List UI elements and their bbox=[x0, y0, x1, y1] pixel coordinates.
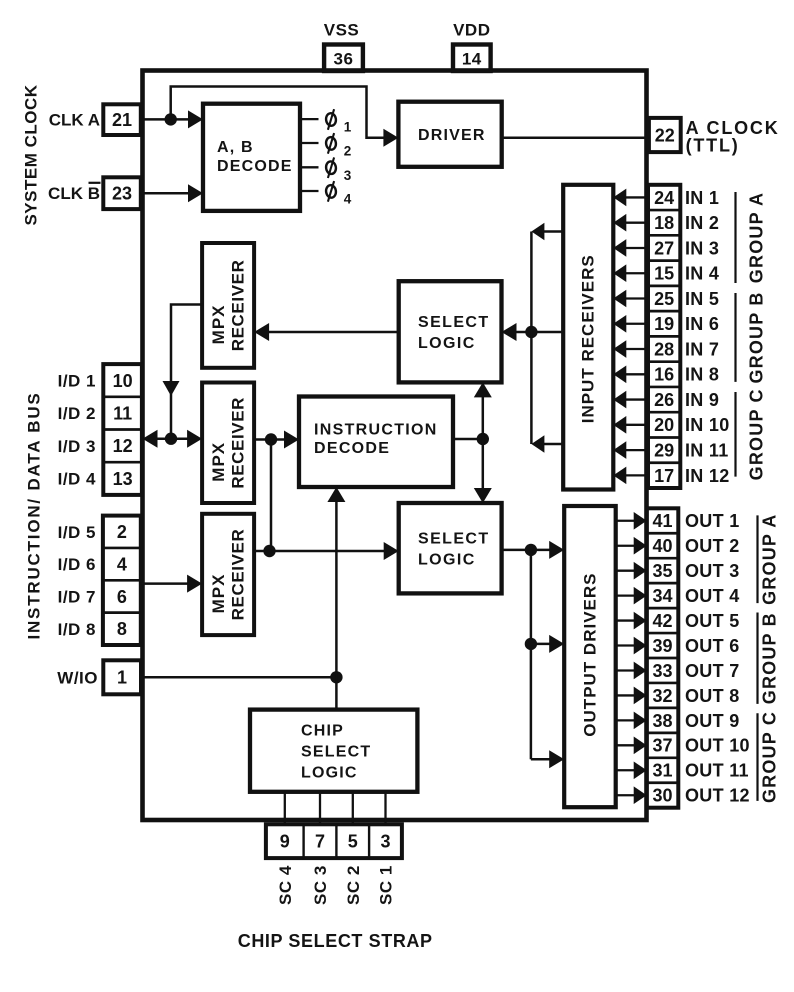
svg-text:I/D 1: I/D 1 bbox=[58, 372, 96, 391]
svg-text:12: 12 bbox=[113, 436, 133, 456]
svg-text:24: 24 bbox=[654, 188, 674, 208]
svg-text:MPX: MPX bbox=[209, 574, 228, 614]
svg-text:34: 34 bbox=[652, 586, 672, 606]
svg-text:25: 25 bbox=[654, 289, 674, 309]
svg-text:SC 2: SC 2 bbox=[344, 865, 363, 905]
svg-text:INPUT RECEIVERS: INPUT RECEIVERS bbox=[579, 254, 598, 423]
svg-text:32: 32 bbox=[652, 686, 672, 706]
svg-text:IN 7: IN 7 bbox=[685, 339, 719, 359]
svg-text:16: 16 bbox=[654, 365, 674, 385]
svg-text:I/D 4: I/D 4 bbox=[58, 470, 96, 489]
svg-text:OUT 5: OUT 5 bbox=[685, 611, 740, 631]
svg-text:I/D 3: I/D 3 bbox=[58, 437, 96, 456]
svg-text:11: 11 bbox=[113, 404, 132, 424]
svg-text:CLK A: CLK A bbox=[49, 110, 100, 129]
svg-text:IN 5: IN 5 bbox=[685, 289, 719, 309]
svg-text:IN 1: IN 1 bbox=[685, 188, 719, 208]
svg-text:IN 3: IN 3 bbox=[685, 238, 719, 258]
svg-text:36: 36 bbox=[334, 50, 354, 69]
svg-text:SELECT: SELECT bbox=[418, 530, 490, 547]
svg-text:1: 1 bbox=[117, 668, 127, 688]
svg-text:28: 28 bbox=[654, 339, 674, 359]
svg-text:40: 40 bbox=[652, 536, 672, 556]
svg-text:I/D 7: I/D 7 bbox=[58, 588, 96, 607]
svg-text:LOGIC: LOGIC bbox=[418, 551, 476, 568]
svg-text:26: 26 bbox=[654, 390, 674, 410]
svg-text:RECEIVER: RECEIVER bbox=[229, 529, 248, 621]
svg-text:37: 37 bbox=[652, 736, 672, 756]
svg-text:SC 4: SC 4 bbox=[276, 865, 295, 905]
svg-text:VDD: VDD bbox=[453, 21, 490, 40]
svg-text:IN 9: IN 9 bbox=[685, 390, 719, 410]
svg-text:GROUP A: GROUP A bbox=[747, 192, 767, 283]
svg-text:10: 10 bbox=[113, 371, 133, 391]
svg-text:38: 38 bbox=[652, 711, 672, 731]
svg-text:4: 4 bbox=[344, 192, 352, 207]
svg-text:29: 29 bbox=[654, 441, 674, 461]
svg-text:I/D 8: I/D 8 bbox=[58, 620, 96, 639]
svg-text:14: 14 bbox=[462, 50, 482, 69]
svg-text:5: 5 bbox=[348, 832, 358, 852]
svg-text:OUT 11: OUT 11 bbox=[685, 761, 749, 781]
svg-text:GROUP C: GROUP C bbox=[760, 711, 780, 803]
svg-text:GROUP B: GROUP B bbox=[760, 612, 780, 704]
svg-text:(TTL): (TTL) bbox=[686, 135, 740, 155]
svg-text:35: 35 bbox=[652, 561, 672, 581]
svg-text:SC 1: SC 1 bbox=[377, 865, 396, 905]
svg-text:LOGIC: LOGIC bbox=[301, 764, 358, 781]
svg-text:IN 4: IN 4 bbox=[685, 264, 719, 284]
svg-text:OUT 7: OUT 7 bbox=[685, 661, 740, 681]
svg-text:OUT 4: OUT 4 bbox=[685, 586, 740, 606]
svg-text:OUT 6: OUT 6 bbox=[685, 636, 740, 656]
svg-text:OUT 2: OUT 2 bbox=[685, 536, 740, 556]
svg-text:9: 9 bbox=[280, 832, 290, 852]
svg-text:2: 2 bbox=[117, 522, 127, 542]
svg-text:LOGIC: LOGIC bbox=[418, 335, 476, 352]
svg-text:IN 12: IN 12 bbox=[685, 466, 730, 486]
svg-text:IN 8: IN 8 bbox=[685, 365, 719, 385]
svg-text:GROUP A: GROUP A bbox=[760, 513, 780, 604]
svg-text:IN 11: IN 11 bbox=[685, 441, 729, 461]
svg-text:CLK B: CLK B bbox=[48, 184, 100, 203]
svg-text:42: 42 bbox=[652, 611, 672, 631]
svg-text:GROUP C: GROUP C bbox=[747, 388, 767, 480]
svg-text:INSTRUCTION/ DATA BUS: INSTRUCTION/ DATA BUS bbox=[25, 391, 44, 639]
svg-text:OUT 8: OUT 8 bbox=[685, 686, 740, 706]
svg-text:27: 27 bbox=[654, 238, 674, 258]
svg-text:OUT 12: OUT 12 bbox=[685, 786, 750, 806]
svg-text:DECODE: DECODE bbox=[314, 440, 390, 457]
svg-text:RECEIVER: RECEIVER bbox=[229, 260, 248, 352]
svg-text:21: 21 bbox=[112, 110, 132, 130]
svg-text:8: 8 bbox=[117, 619, 127, 639]
svg-text:3: 3 bbox=[344, 168, 352, 183]
svg-text:13: 13 bbox=[113, 469, 133, 489]
svg-text:SC 3: SC 3 bbox=[311, 865, 330, 905]
svg-text:OUT 10: OUT 10 bbox=[685, 736, 750, 756]
svg-text:IN 2: IN 2 bbox=[685, 213, 719, 233]
svg-text:31: 31 bbox=[652, 761, 672, 781]
svg-text:MPX: MPX bbox=[209, 304, 228, 344]
svg-text:4: 4 bbox=[117, 555, 127, 575]
svg-text:OUT 1: OUT 1 bbox=[685, 511, 740, 531]
svg-text:18: 18 bbox=[654, 213, 674, 233]
svg-text:IN 6: IN 6 bbox=[685, 314, 719, 334]
svg-text:23: 23 bbox=[112, 184, 132, 204]
svg-text:2: 2 bbox=[344, 144, 352, 159]
svg-text:W/IO: W/IO bbox=[57, 668, 98, 687]
svg-text:20: 20 bbox=[654, 415, 674, 435]
svg-text:MPX: MPX bbox=[209, 442, 228, 482]
svg-text:OUTPUT DRIVERS: OUTPUT DRIVERS bbox=[581, 573, 600, 737]
svg-text:22: 22 bbox=[655, 125, 675, 145]
svg-text:SYSTEM CLOCK: SYSTEM CLOCK bbox=[22, 84, 41, 225]
svg-text:6: 6 bbox=[117, 587, 127, 607]
svg-text:RECEIVER: RECEIVER bbox=[229, 397, 248, 489]
svg-text:41: 41 bbox=[652, 511, 672, 531]
svg-text:CHIP SELECT STRAP: CHIP SELECT STRAP bbox=[238, 931, 433, 951]
svg-text:I/D 6: I/D 6 bbox=[58, 555, 96, 574]
svg-text:IN 10: IN 10 bbox=[685, 415, 730, 435]
svg-text:GROUP B: GROUP B bbox=[747, 291, 767, 383]
svg-text:33: 33 bbox=[652, 661, 672, 681]
svg-text:SELECT: SELECT bbox=[418, 314, 490, 331]
svg-text:17: 17 bbox=[654, 466, 674, 486]
svg-text:39: 39 bbox=[652, 636, 672, 656]
svg-text:OUT 3: OUT 3 bbox=[685, 561, 740, 581]
svg-text:7: 7 bbox=[315, 832, 325, 852]
svg-text:1: 1 bbox=[344, 120, 352, 135]
svg-text:19: 19 bbox=[654, 314, 674, 334]
svg-text:OUT 9: OUT 9 bbox=[685, 711, 740, 731]
svg-text:VSS: VSS bbox=[324, 21, 360, 40]
svg-text:SELECT: SELECT bbox=[301, 743, 371, 760]
svg-text:3: 3 bbox=[380, 832, 390, 852]
svg-text:A, B: A, B bbox=[217, 139, 254, 156]
svg-text:DECODE: DECODE bbox=[217, 158, 293, 175]
svg-text:I/D 2: I/D 2 bbox=[58, 404, 96, 423]
svg-text:I/D 5: I/D 5 bbox=[58, 523, 96, 542]
svg-text:DRIVER: DRIVER bbox=[418, 127, 486, 144]
svg-text:30: 30 bbox=[652, 786, 672, 806]
svg-text:CHIP: CHIP bbox=[301, 722, 344, 739]
svg-text:15: 15 bbox=[654, 264, 674, 284]
svg-text:INSTRUCTION: INSTRUCTION bbox=[314, 422, 438, 439]
